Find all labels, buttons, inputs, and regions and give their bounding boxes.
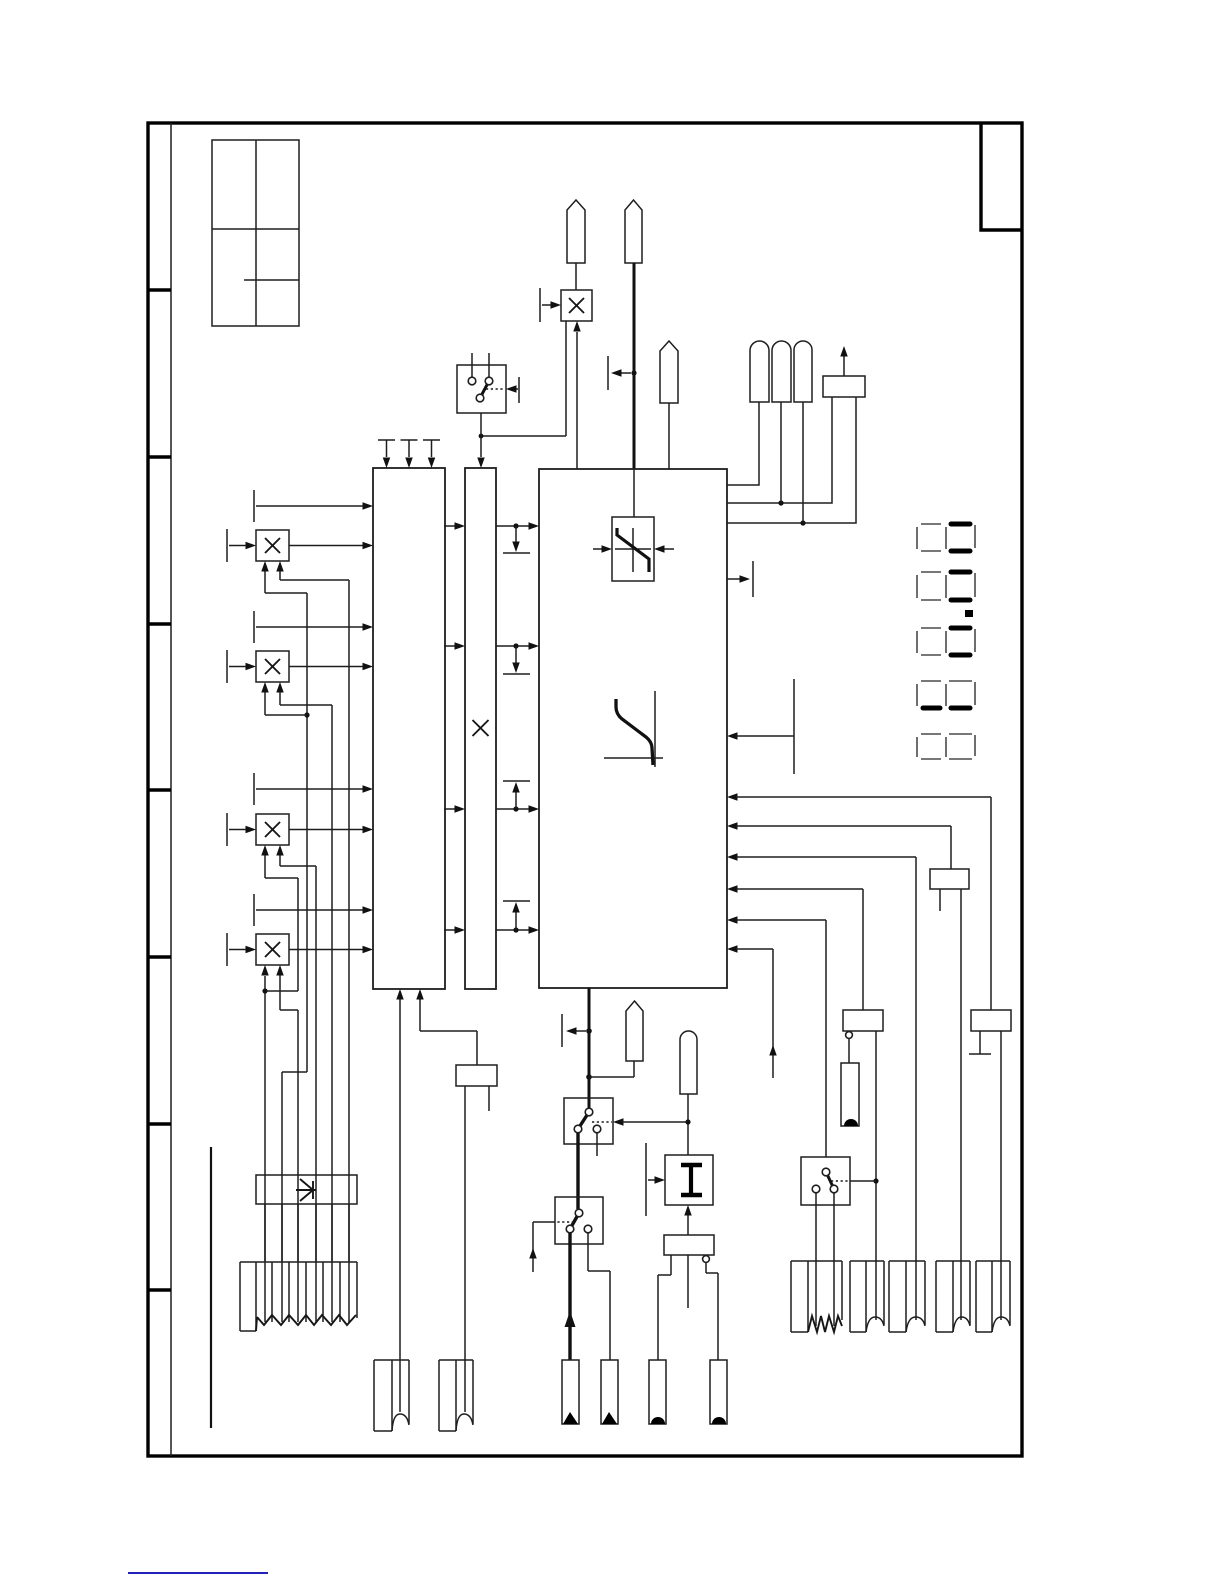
cable line — [210, 1147, 212, 1428]
connector W0 body — [240, 1262, 357, 1331]
node J1 — [479, 434, 484, 439]
input arrow a5 from B1 — [727, 885, 863, 1010]
multiplier M2 — [256, 651, 289, 682]
wire M3 left feedback — [261, 845, 298, 991]
B5 stub — [939, 889, 941, 911]
S4 control line — [529, 1222, 574, 1272]
S3 stub — [596, 1133, 598, 1156]
wire bubble to indicator — [848, 1039, 850, 1063]
bus wires through K1 — [265, 1204, 349, 1322]
characteristic curve symbol C1 — [604, 691, 663, 767]
wire U1 to socket A — [399, 998, 401, 1412]
node J4 — [262, 988, 267, 993]
B2 stub with T-bar — [969, 1031, 991, 1054]
B4 right wire to pin T4 — [706, 1263, 718, 1360]
wire M4 right feedback — [276, 965, 298, 1261]
input T-bar to M0 — [540, 288, 561, 322]
input T-bar to M2 — [227, 650, 256, 683]
display digit row 3 — [917, 628, 975, 655]
M2 output arrow to U1 — [289, 663, 373, 671]
display digit row 5 — [917, 734, 975, 759]
switch S1 — [457, 353, 506, 413]
pin T4 — [710, 1360, 727, 1424]
node J10 — [685, 1119, 690, 1124]
pin flag N5 — [680, 1031, 697, 1094]
wire U3 to N1 — [727, 402, 759, 485]
connector W4 — [936, 1261, 970, 1332]
wire B1 to connector W2 — [875, 1031, 877, 1320]
inverter bubble of B4 — [703, 1256, 710, 1263]
zone dividers on left margin — [148, 290, 171, 1290]
S3 control arrow — [592, 1118, 688, 1126]
input arrow a6 from switch S2 — [727, 916, 826, 1157]
thick wire flag X2 to main block — [633, 263, 636, 469]
input arrow a3 from B5 — [727, 822, 951, 869]
S2 wires to connector W1 — [816, 1193, 834, 1326]
thick wire S3 to S4 — [576, 1133, 579, 1209]
input T-bar to M4 — [227, 933, 256, 966]
connector W1 — [791, 1261, 842, 1332]
pin flag N3 — [794, 341, 812, 402]
reference T-arrow row 4 to U1 — [254, 894, 373, 926]
B3 stub — [488, 1086, 490, 1111]
adapter box B3 — [456, 1065, 497, 1086]
M1 output arrow to U1 — [289, 542, 373, 550]
pin flag N1 — [750, 341, 769, 402]
node J8 — [586, 1028, 592, 1034]
flag X3 — [660, 341, 678, 469]
node J7 — [873, 1178, 878, 1183]
wire switch S1 to J1 — [480, 413, 482, 436]
multiplier M3 — [256, 814, 289, 845]
wire M0 output to mixer column — [481, 321, 566, 436]
input arrow a1 with T-bar — [727, 679, 794, 774]
pin T2 — [601, 1360, 618, 1424]
wire N5 to integrator — [687, 1094, 689, 1155]
ratio block U2 — [465, 468, 496, 989]
U3 status output arrow — [727, 561, 753, 597]
B0 output arrow up — [840, 346, 848, 376]
input arrow a4 from connector W3 — [727, 853, 916, 1320]
pin flag N2 — [772, 341, 791, 402]
driver box B4 — [664, 1235, 714, 1255]
multiplier M0 — [561, 290, 592, 321]
switch S2 — [801, 1157, 876, 1205]
input T-bar to I1 — [646, 1143, 665, 1216]
node J6 — [800, 520, 805, 525]
limiter symbol L1 — [593, 517, 674, 581]
node J2 — [631, 370, 636, 375]
display digit row 4 — [917, 681, 975, 708]
wire U3 to B0 left — [727, 397, 832, 503]
bus arrow row 1 U1-U2-U3 with stub — [444, 522, 539, 553]
wire U3 to B0 right — [727, 397, 856, 523]
connector W3 — [889, 1261, 925, 1332]
sensor box B5 — [930, 869, 969, 889]
wire B2 to connector W5 — [1000, 1031, 1002, 1320]
blue revision underline — [128, 1572, 268, 1574]
multiplier M1 — [256, 530, 289, 561]
wire U1 to B3 — [420, 998, 477, 1065]
socket B — [439, 1360, 473, 1431]
arrow B4 to I1 — [684, 1205, 692, 1235]
reference T-arrow row 1 to U1 — [254, 490, 373, 522]
thick wire U3 output — [588, 988, 591, 1109]
wire B5 to connector W4 — [960, 889, 962, 1320]
title table — [212, 140, 299, 326]
wire M2 left feedback — [261, 682, 307, 715]
control block U3 — [539, 469, 727, 988]
terminal box B0 — [823, 376, 865, 397]
inverter bubble of B1 — [846, 1032, 853, 1039]
bus arrow row 2 U1-U2-U3 with stub — [444, 642, 539, 674]
wire N2 stem — [780, 402, 782, 503]
tap arrow from J2 — [608, 356, 631, 390]
connector W2 — [850, 1261, 884, 1332]
wire M4 left feedback — [261, 965, 269, 1261]
integrator box I1 — [665, 1155, 713, 1205]
socket A — [374, 1360, 409, 1431]
multiplier M4 — [256, 934, 289, 965]
setpoint T-arrows into U1 top — [378, 440, 440, 468]
flag X1 — [567, 200, 585, 290]
left margin line — [170, 123, 172, 1456]
connector W5 — [976, 1261, 1010, 1332]
display decimal point — [965, 610, 973, 617]
flag X4 — [589, 1001, 643, 1077]
node J3 — [304, 712, 309, 717]
M3 output arrow to U1 — [289, 826, 373, 834]
input arrow a7 rising — [727, 945, 777, 1078]
pin T3 — [649, 1360, 666, 1424]
M4 output arrow to U1 — [289, 946, 373, 954]
input arrow a2 from B2 — [727, 793, 991, 1010]
display digit row 2 — [917, 572, 975, 600]
S1 control arrow — [486, 377, 519, 403]
input T-bar to M3 — [227, 813, 256, 846]
wire M1 left feedback — [261, 561, 307, 1261]
feedback arrows into U1 bottom — [396, 989, 424, 1000]
B4 left wire to pin T3 — [658, 1255, 671, 1360]
reference T-arrow row 3 to U1 — [254, 773, 373, 805]
transfer box K1 — [256, 1175, 357, 1204]
node J9 — [586, 1074, 592, 1080]
sheet border frame — [148, 123, 1022, 1456]
sheet corner box top-right — [981, 123, 1022, 230]
input T-bar to M1 — [227, 529, 256, 562]
thick wire S4 to pin T1 — [565, 1233, 576, 1360]
wire J1 down into ratio block — [477, 436, 485, 468]
pin T1 — [562, 1360, 579, 1424]
wire M2 right feedback — [276, 682, 332, 1261]
B3 left wire to socket B — [464, 1086, 466, 1412]
bus arrow row 4 U1-U2-U3 with stub — [444, 901, 539, 934]
interface box B1 — [843, 1010, 883, 1031]
bus arrow row 3 U1-U2-U3 with stub — [444, 781, 539, 813]
wire flag X2 stem inside U3 — [633, 469, 635, 517]
B4 center stub — [687, 1255, 689, 1308]
reference T-arrow row 2 to U1 — [254, 611, 373, 643]
display digit row 1 — [917, 524, 975, 551]
node J5 — [778, 500, 783, 505]
tap arrow at J8 — [562, 1014, 586, 1047]
interface box B2 — [971, 1010, 1011, 1031]
wire feedback up into M0 — [573, 321, 581, 469]
wire M3 right feedback — [276, 845, 316, 1261]
flag X2 — [625, 200, 642, 263]
wire M1 right feedback — [276, 561, 349, 1261]
switch S3 — [564, 1098, 613, 1144]
processing block U1 — [373, 468, 445, 989]
S4 wire to pin T2 — [588, 1233, 610, 1360]
switch S4 — [555, 1197, 603, 1244]
indicator tube V1 — [841, 1063, 859, 1126]
wire N3 stem — [802, 402, 804, 523]
